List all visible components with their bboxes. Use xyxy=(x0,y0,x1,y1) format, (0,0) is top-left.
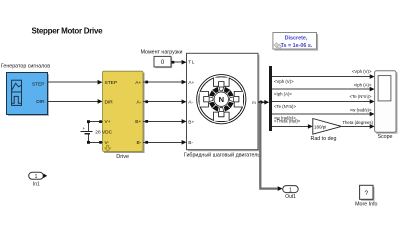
wire Vph xyxy=(272,69,374,84)
svg-text:1: 1 xyxy=(35,174,38,180)
battery vertical leads xyxy=(87,122,89,131)
wire Theta (rad) to gain xyxy=(272,119,313,129)
junction dots xyxy=(87,120,90,123)
svg-text:More Info: More Info xyxy=(355,202,377,208)
wire m (motor to bus selector) xyxy=(258,100,269,105)
generator icon xyxy=(12,80,22,105)
svg-text:m: m xyxy=(252,101,256,106)
wire Theta (degrees) to scope xyxy=(341,120,374,129)
svg-text:STEP: STEP xyxy=(32,82,45,88)
svg-text:Out1: Out1 xyxy=(285,194,296,200)
powergui icon xyxy=(274,43,282,49)
wire TL xyxy=(171,60,187,65)
rotor teeth xyxy=(207,85,235,113)
svg-text:Scope: Scope xyxy=(377,134,392,140)
motor icon xyxy=(197,75,246,124)
svg-text:DIR: DIR xyxy=(36,99,45,105)
scope block xyxy=(375,71,398,134)
svg-text:28 VDC: 28 VDC xyxy=(95,130,112,136)
wire A+ xyxy=(143,80,187,85)
svg-text:Ts = 1e-06 s.: Ts = 1e-06 s. xyxy=(281,43,313,49)
svg-text:A-: A- xyxy=(137,99,142,105)
svg-text:180/pi: 180/pi xyxy=(314,124,326,129)
svg-text:Гибридный шаговый двигатель: Гибридный шаговый двигатель xyxy=(184,152,260,159)
svg-text:Theta (degrees): Theta (degrees) xyxy=(342,120,373,125)
wire B+ xyxy=(143,119,187,124)
svg-text:<w (rad/s)>: <w (rad/s)> xyxy=(350,108,372,113)
stator poles xyxy=(200,78,243,121)
svg-text:<Vph (V)>: <Vph (V)> xyxy=(352,69,372,74)
wire V+ xyxy=(88,121,102,123)
wire B- xyxy=(143,140,187,145)
wire w xyxy=(272,108,374,121)
wire DIR xyxy=(48,99,103,104)
svg-text:V+: V+ xyxy=(105,119,111,125)
svg-text:Rad to deg: Rad to deg xyxy=(311,136,337,142)
svg-text:Drive: Drive xyxy=(116,154,129,160)
svg-text:+: + xyxy=(82,126,85,131)
outport Out1 xyxy=(283,186,299,194)
wire A- xyxy=(143,99,187,104)
wire V- xyxy=(88,141,102,143)
svg-text:<Iph (A)>: <Iph (A)> xyxy=(274,91,292,96)
svg-text:Discrete,: Discrete, xyxy=(285,36,308,42)
svg-text:<Vph (V)>: <Vph (V)> xyxy=(274,79,294,84)
svg-text:<Iph (A)>: <Iph (A)> xyxy=(354,83,372,88)
stepper motor block xyxy=(187,53,260,151)
svg-text:DIR: DIR xyxy=(105,99,114,105)
svg-text:B+: B+ xyxy=(135,119,141,125)
More Info block xyxy=(360,185,375,201)
gain Rad to deg xyxy=(313,119,342,135)
svg-text:A+: A+ xyxy=(135,80,141,86)
svg-text:1: 1 xyxy=(289,187,292,193)
svg-text:<Te (N*m)>: <Te (N*m)> xyxy=(274,104,296,109)
drive mask arrow icon xyxy=(105,145,111,151)
svg-text:TL: TL xyxy=(188,60,195,66)
svg-text:A+: A+ xyxy=(188,80,194,86)
drive block xyxy=(103,71,145,153)
svg-text:N: N xyxy=(219,95,224,104)
inport In1 xyxy=(29,172,48,180)
constant block 0 xyxy=(154,56,172,68)
battery plates xyxy=(81,130,93,132)
wire STEP xyxy=(48,80,103,85)
wire Iph xyxy=(272,83,374,97)
svg-text:<Theta (rad)>: <Theta (rad)> xyxy=(274,119,301,124)
svg-text:Stepper Motor Drive: Stepper Motor Drive xyxy=(32,26,104,35)
svg-text:B-: B- xyxy=(137,140,142,146)
svg-text:A-: A- xyxy=(188,100,193,106)
DC source 28 VDC xyxy=(81,120,113,144)
svg-text:<Te (N*m)>: <Te (N*m)> xyxy=(350,94,372,99)
svg-text:Генератор сигналов: Генератор сигналов xyxy=(1,64,50,70)
svg-text:In1: In1 xyxy=(33,182,40,188)
bus selector xyxy=(269,66,272,131)
svg-text:B-: B- xyxy=(188,140,193,146)
wire Te xyxy=(272,94,374,109)
svg-text:?: ? xyxy=(364,190,368,197)
signal generator block xyxy=(7,73,50,117)
svg-text:Момент нагрузки: Момент нагрузки xyxy=(141,50,183,56)
powergui Discrete block xyxy=(273,33,318,51)
svg-text:STEP: STEP xyxy=(105,80,118,86)
svg-text:B+: B+ xyxy=(188,119,194,125)
wire m branch to Out1 (thick) xyxy=(260,103,282,191)
